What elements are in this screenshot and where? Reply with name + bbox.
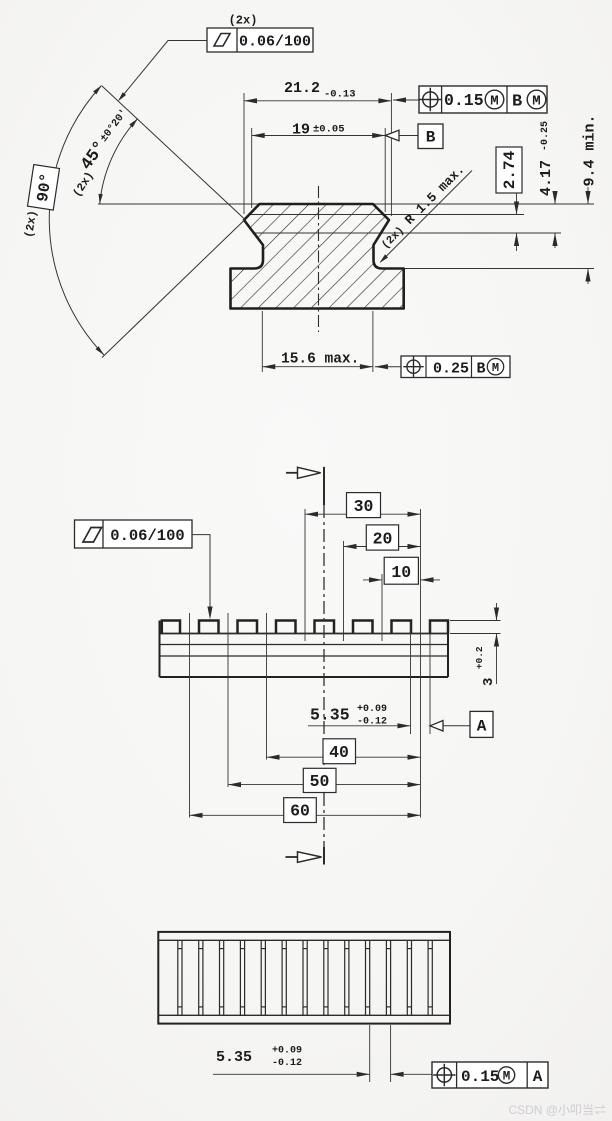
svg-text:B: B <box>512 93 522 112</box>
svg-text:3 +0.2: 3 +0.2 <box>474 646 497 686</box>
svg-text:±0°20′: ±0°20′ <box>98 107 130 144</box>
svg-text:50: 50 <box>310 772 330 791</box>
svg-text:A: A <box>533 1068 543 1086</box>
svg-text:-0.12: -0.12 <box>272 1058 302 1069</box>
svg-text:B: B <box>426 129 436 147</box>
svg-text:(2x): (2x) <box>229 14 258 28</box>
svg-text:-0.13: -0.13 <box>324 89 356 101</box>
svg-text:21.2: 21.2 <box>284 80 320 97</box>
svg-text:0.06/100: 0.06/100 <box>110 527 184 545</box>
svg-text:5.35: 5.35 <box>310 706 350 725</box>
svg-text:30: 30 <box>354 497 374 516</box>
svg-text:M: M <box>492 361 499 375</box>
svg-text:M: M <box>532 94 540 110</box>
svg-text:2.74: 2.74 <box>501 150 519 189</box>
svg-text:60: 60 <box>290 802 310 821</box>
svg-text:(2x): (2x) <box>23 210 40 239</box>
svg-text:4.17 -0.25: 4.17 -0.25 <box>538 121 555 196</box>
svg-text:±0.05: ±0.05 <box>313 124 345 136</box>
svg-text:+0.09: +0.09 <box>357 704 387 715</box>
svg-text:B: B <box>477 361 486 378</box>
svg-text:15.6 max.: 15.6 max. <box>281 352 359 368</box>
svg-text:10: 10 <box>391 563 411 582</box>
svg-text:0.06/100: 0.06/100 <box>239 33 311 50</box>
svg-text:40: 40 <box>329 743 349 762</box>
svg-text:0.15: 0.15 <box>444 91 484 110</box>
svg-text:A: A <box>477 718 487 736</box>
svg-text:CSDN @小叩当⇌: CSDN @小叩当⇌ <box>508 1103 606 1117</box>
svg-text:19: 19 <box>292 122 310 139</box>
svg-text:20: 20 <box>373 530 393 549</box>
svg-text:M: M <box>503 1070 511 1084</box>
svg-text:M: M <box>490 94 498 110</box>
svg-text:5.35: 5.35 <box>216 1049 252 1066</box>
svg-text:+0.09: +0.09 <box>272 1046 302 1057</box>
svg-text:0.25: 0.25 <box>433 361 469 378</box>
svg-text:9.4 min.: 9.4 min. <box>582 114 599 186</box>
svg-text:0.15: 0.15 <box>461 1068 499 1086</box>
